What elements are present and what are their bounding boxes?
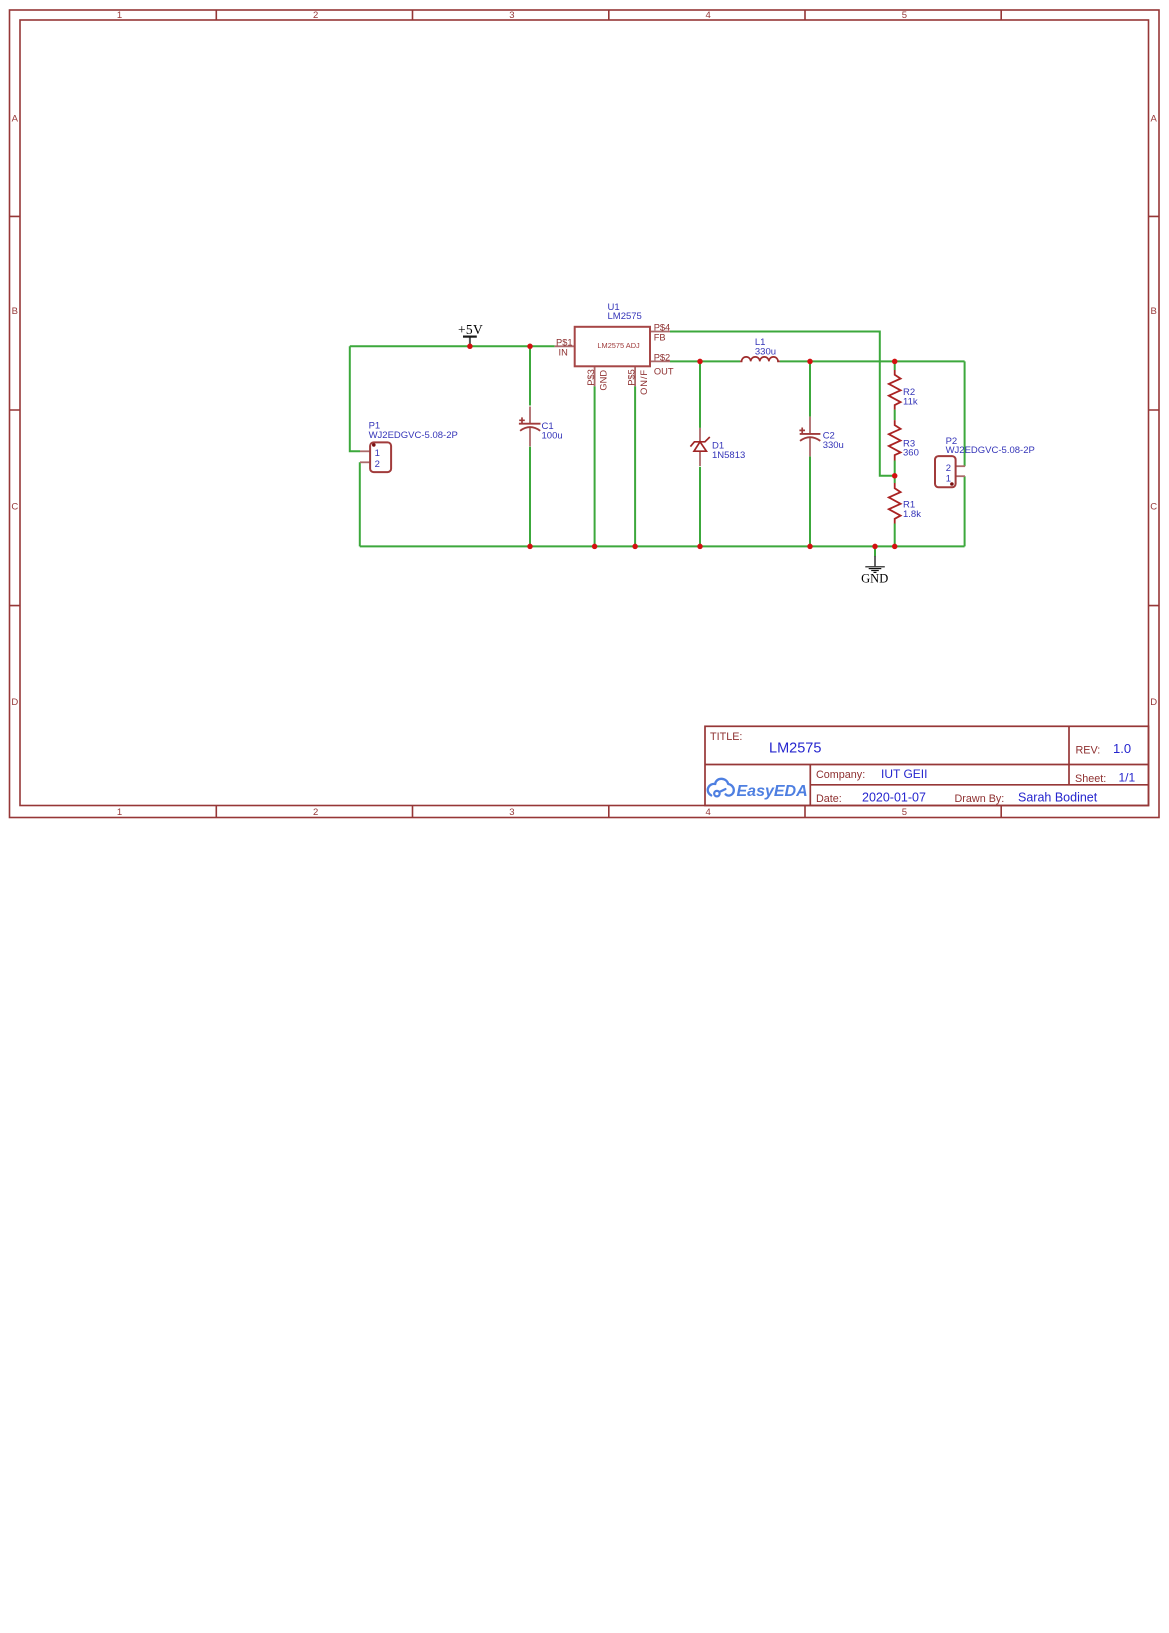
frame row labels left: [11, 114, 18, 709]
svg-text:4: 4: [706, 807, 711, 818]
svg-text:P$2: P$2: [654, 352, 671, 362]
connector P1 WJ2EDGVC-5.08-2P: [370, 442, 391, 472]
svg-text:Company:: Company:: [816, 769, 865, 781]
pin P1.2: [360, 461, 370, 463]
diode D1 1N5813 (zener): [690, 437, 709, 447]
frame inner border: [20, 20, 1149, 806]
capacitor C2 330u: [800, 433, 821, 435]
svg-text:ON/F: ON/F: [639, 369, 649, 395]
svg-text:IUT GEII: IUT GEII: [881, 767, 927, 781]
junction C2 / OUT rail: [807, 359, 813, 365]
titleblock company/date divider: [810, 784, 1148, 786]
svg-text:P$5: P$5: [627, 369, 637, 386]
resistor R2 11k: [889, 370, 901, 410]
svg-text:1/1: 1/1: [1119, 771, 1136, 785]
junction dots: [467, 344, 897, 550]
svg-text:WJ2EDGVC-5.08-2P: WJ2EDGVC-5.08-2P: [369, 430, 458, 441]
svg-text:1: 1: [946, 473, 951, 484]
svg-text:WJ2EDGVC-5.08-2P: WJ2EDGVC-5.08-2P: [946, 445, 1035, 456]
SHEET FRAME: [10, 10, 1160, 818]
frame column labels bottom: [117, 807, 907, 818]
junction D1 / bottom rail: [697, 544, 703, 550]
titleblock rev column divider: [1068, 726, 1070, 785]
pin U1 P$4 FB: [650, 331, 670, 333]
column ticks bottom: [216, 806, 1001, 818]
wire OUT down right vertical to P2 pin2: [964, 361, 966, 466]
svg-text:OUT: OUT: [654, 366, 674, 376]
pin C1 bottom: [529, 427, 531, 446]
wire GND stub: [874, 546, 876, 556]
wire D1 bottom: [699, 467, 701, 547]
wire U1 ON/F pin down: [634, 386, 636, 546]
column ticks top: [216, 10, 1001, 20]
wire OUT right segment: [780, 360, 965, 362]
resistor R3 360: [889, 420, 901, 460]
pin U1 P$5 ON/F: [634, 366, 636, 386]
row ticks left: [10, 216, 21, 605]
wire C1 top: [529, 346, 531, 405]
svg-text:2: 2: [375, 459, 380, 470]
junction R2 / OUT rail: [892, 359, 898, 365]
wire P2 pin1 down to bottom rail: [964, 476, 966, 546]
svg-text:D: D: [1150, 697, 1157, 708]
svg-text:1: 1: [375, 448, 380, 459]
inductor L1 330u: [740, 357, 780, 362]
pin U1 P$3 GND: [594, 366, 596, 386]
junction GND / bottom rail: [872, 544, 878, 550]
junction FB / R3-R1 node: [892, 473, 898, 479]
svg-text:5: 5: [902, 10, 907, 21]
wire U1 GND pin down: [594, 386, 596, 546]
svg-text:GND: GND: [861, 572, 888, 586]
row ticks right: [1149, 216, 1160, 605]
pin C2 bottom: [809, 437, 811, 456]
titleblock outline: [705, 726, 1149, 805]
junction U1 GND / bottom rail: [592, 544, 598, 550]
junction C1 / top rail: [527, 344, 533, 350]
svg-text:Sarah Bodinet: Sarah Bodinet: [1018, 791, 1098, 805]
svg-text:REV:: REV:: [1076, 744, 1101, 756]
IC U1 LM2575: [575, 327, 650, 367]
svg-text:5: 5: [902, 807, 907, 818]
wire C2 bottom: [809, 457, 811, 547]
pin C1 top: [529, 407, 531, 425]
svg-text:LM2575 ADJ: LM2575 ADJ: [597, 341, 640, 350]
svg-text:360: 360: [903, 448, 919, 459]
pin D1 top: [699, 428, 701, 442]
frame column labels top: [117, 10, 907, 21]
wire R1 bottom: [894, 524, 896, 547]
svg-text:Date:: Date:: [816, 793, 842, 805]
junction C2 / bottom rail: [807, 544, 813, 550]
frame outer border: [10, 10, 1160, 818]
junction D1 / OUT rail: [697, 359, 703, 365]
wire D1 top: [699, 361, 701, 428]
svg-text:330u: 330u: [823, 440, 844, 451]
wire R2-R3 gap: [894, 410, 896, 421]
wire R3-R1 node segment: [894, 461, 896, 484]
svg-text:D: D: [11, 697, 18, 708]
svg-text:P$3: P$3: [586, 369, 596, 386]
junction +5V / top rail: [467, 344, 473, 350]
capacitor C1 100u: [519, 423, 541, 425]
svg-text:B: B: [1151, 306, 1157, 317]
wire C2 top: [809, 361, 811, 416]
svg-text:TITLE:: TITLE:: [710, 731, 742, 743]
pin U1 P$2 OUT: [650, 360, 670, 362]
svg-text:C: C: [11, 502, 18, 513]
svg-text:2020-01-07: 2020-01-07: [862, 791, 926, 805]
svg-text:Sheet:: Sheet:: [1075, 773, 1106, 785]
svg-text:A: A: [1151, 114, 1158, 125]
svg-text:2: 2: [313, 10, 318, 21]
pin U1 P$1 IN: [555, 345, 575, 347]
wire bottom rail: [360, 545, 965, 547]
pin P1.1: [360, 450, 370, 452]
svg-text:2: 2: [313, 807, 318, 818]
pin D1 bottom: [699, 451, 701, 466]
wire P1 pin2 down to bottom rail: [359, 462, 361, 546]
svg-text:330u: 330u: [755, 347, 776, 358]
junction C1 / bottom rail: [527, 544, 533, 550]
svg-text:GND: GND: [598, 370, 608, 391]
EasyEDA logo cloud: [708, 779, 734, 797]
pin P2.2: [956, 465, 965, 467]
connector P2 WJ2EDGVC-5.08-2P: [935, 456, 956, 487]
power flag +5V: [469, 337, 471, 346]
svg-text:FB: FB: [654, 332, 666, 342]
svg-text:Drawn By:: Drawn By:: [955, 793, 1005, 805]
svg-text:EasyEDA: EasyEDA: [737, 783, 808, 800]
svg-text:1.0: 1.0: [1113, 741, 1131, 756]
resistor R1 1.8k: [889, 483, 901, 524]
svg-text:P$1: P$1: [556, 337, 573, 347]
svg-text:C: C: [1150, 502, 1157, 513]
wire left vertical from top rail to P1 pin1: [350, 346, 360, 451]
svg-text:1: 1: [117, 807, 122, 818]
frame row labels right: [1150, 114, 1157, 709]
svg-text:1: 1: [117, 10, 122, 21]
pin P2.1: [956, 475, 965, 477]
svg-text:100u: 100u: [542, 431, 563, 442]
titleblock title row divider: [705, 764, 1149, 766]
pin C2 top: [809, 417, 811, 435]
svg-text:P$4: P$4: [654, 323, 671, 333]
wire FB net: [670, 332, 895, 476]
junction U1 ON/F / bottom rail: [632, 544, 638, 550]
svg-text:1.8k: 1.8k: [903, 509, 921, 520]
svg-text:LM2575: LM2575: [769, 741, 821, 757]
svg-text:1N5813: 1N5813: [712, 450, 745, 461]
ground symbol GND: [874, 556, 876, 566]
wire top rail +5V: [350, 345, 555, 347]
wire OUT left segment: [670, 360, 740, 362]
svg-text:A: A: [12, 114, 19, 125]
svg-text:B: B: [12, 306, 18, 317]
titleblock logo cell divider: [809, 765, 811, 806]
junction R1 / bottom rail: [892, 544, 898, 550]
wire C1 bottom: [529, 447, 531, 547]
svg-text:4: 4: [706, 10, 711, 21]
svg-text:IN: IN: [559, 348, 568, 358]
svg-text:3: 3: [509, 10, 514, 21]
svg-text:3: 3: [509, 807, 514, 818]
svg-text:LM2575: LM2575: [608, 311, 642, 322]
wire R2 top: [894, 361, 896, 370]
svg-text:+5V: +5V: [458, 322, 483, 337]
svg-text:11k: 11k: [903, 396, 918, 407]
